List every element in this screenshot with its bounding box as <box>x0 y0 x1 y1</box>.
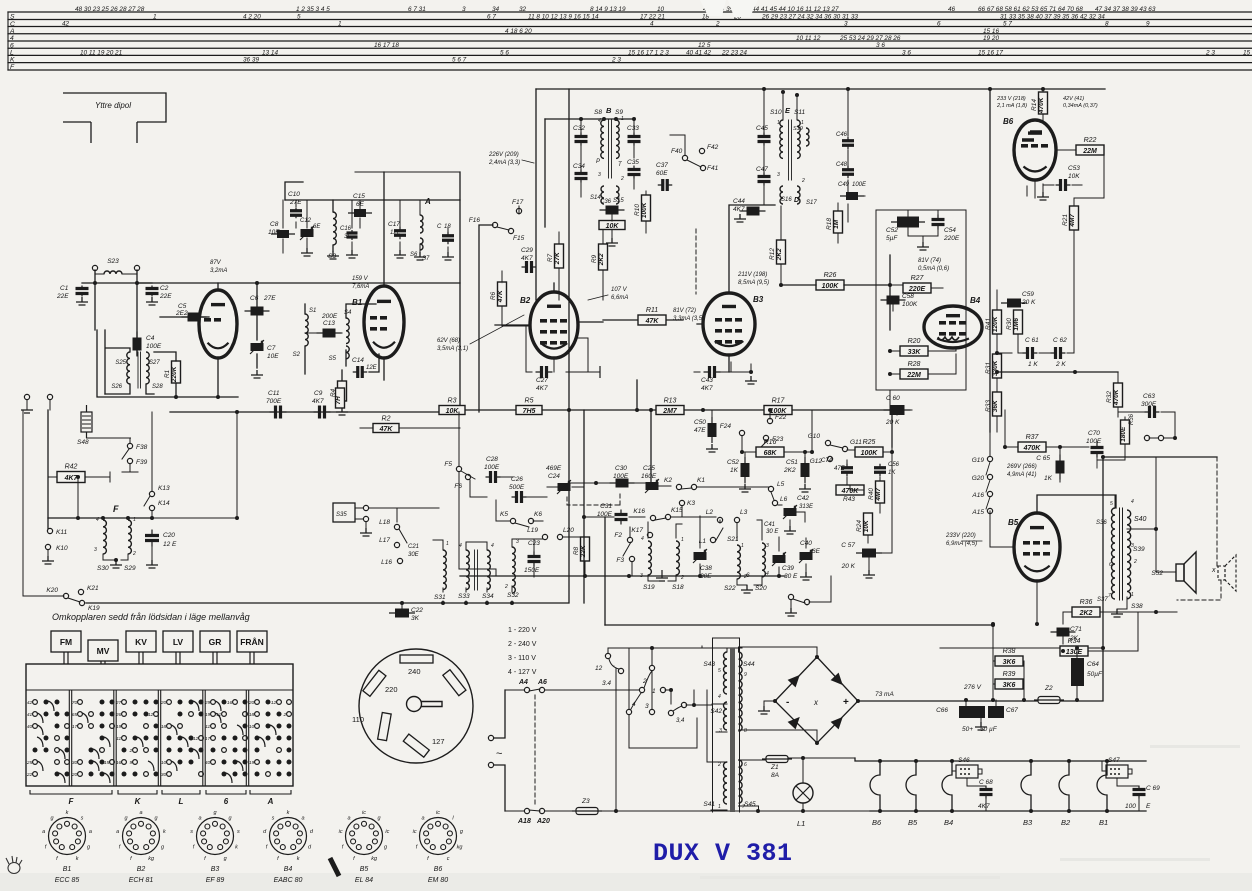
junction <box>627 574 631 578</box>
capacitor C29 <box>522 261 537 273</box>
wire B3 anode <box>729 205 775 293</box>
capacitor C34 <box>575 170 588 183</box>
matrix link <box>37 725 43 735</box>
svg-text:kg: kg <box>371 856 378 862</box>
svg-text:130E: 130E <box>1066 649 1083 656</box>
svg-text:B: B <box>606 106 612 115</box>
svg-text:1 2 35 3 4 5: 1 2 35 3 4 5 <box>296 6 330 13</box>
matrix link <box>93 749 99 759</box>
button stem MV <box>101 661 105 664</box>
matrix contact <box>44 736 49 741</box>
contact L1 <box>710 537 715 542</box>
junction heater B5 bottom <box>914 809 918 813</box>
terminal antenna 2 <box>134 265 139 270</box>
capacitor C59 <box>1001 299 1027 308</box>
wire F5 down to K5 <box>459 472 496 576</box>
svg-text:9: 9 <box>130 760 133 766</box>
contact jack a <box>1144 435 1149 440</box>
junction <box>1041 87 1045 91</box>
wire A6 to selector <box>545 689 639 691</box>
svg-text:1: 1 <box>681 537 684 543</box>
wire main bus y410 <box>440 409 892 411</box>
wire S6 S7 <box>419 200 421 252</box>
junction heater B3 bottom <box>1029 809 1033 813</box>
junction <box>995 370 999 374</box>
junction R16 left <box>740 450 744 454</box>
junction <box>101 516 105 520</box>
wire x1156 <box>1155 457 1157 529</box>
wire C53 leads <box>1043 184 1082 186</box>
svg-text:B1: B1 <box>63 866 72 873</box>
svg-text:22: 22 <box>26 772 33 778</box>
svg-text:R12: R12 <box>769 248 776 260</box>
transformer bobbin outline <box>713 638 740 812</box>
capacitor C38 trimmer <box>693 549 707 563</box>
ground C16 <box>346 250 358 258</box>
junction <box>135 281 139 285</box>
svg-text:8: 8 <box>1105 21 1109 28</box>
svg-text:C11: C11 <box>268 390 280 397</box>
svg-text:100K: 100K <box>902 301 918 308</box>
junction sel 1 <box>669 688 673 692</box>
resistor R14 <box>1031 92 1048 114</box>
svg-text:470K: 470K <box>1023 445 1042 452</box>
matrix contact open <box>110 760 115 765</box>
core S8 S9 <box>609 120 612 178</box>
matrix link <box>215 713 221 723</box>
svg-text:C 60: C 60 <box>886 395 900 402</box>
winding S43 <box>724 652 728 694</box>
selector key <box>407 697 443 712</box>
matrix contact <box>189 700 194 705</box>
svg-text:C: C <box>437 224 442 230</box>
svg-text:7,6mA: 7,6mA <box>352 284 369 290</box>
matrix link <box>182 737 188 747</box>
svg-text:3: 3 <box>598 172 601 178</box>
svg-text:C31: C31 <box>600 503 612 510</box>
junction <box>1061 649 1065 653</box>
matrix contact open <box>122 760 127 765</box>
svg-text:2: 2 <box>801 178 805 184</box>
coil S31 <box>443 550 446 590</box>
contact F40 <box>682 155 687 160</box>
svg-text:20 K: 20 K <box>1021 299 1036 306</box>
svg-text:3: 3 <box>516 539 519 545</box>
svg-text:G19: G19 <box>972 457 985 464</box>
matrix link <box>82 713 88 723</box>
junction <box>632 117 636 121</box>
svg-text:C10: C10 <box>288 191 300 198</box>
coil S15 <box>616 186 619 204</box>
svg-text:B6: B6 <box>1003 117 1014 126</box>
svg-text:120K: 120K <box>992 315 999 332</box>
capacitor C13 <box>317 329 342 338</box>
selector wires right <box>673 690 712 711</box>
svg-text:S30: S30 <box>97 565 109 572</box>
wire bridge minus <box>764 701 775 706</box>
svg-text:C46: C46 <box>836 132 848 138</box>
tube socket B1 ECC 85 <box>49 818 86 855</box>
contact L19 <box>542 534 547 539</box>
transformer core S25-S27 <box>138 352 141 388</box>
matrix contact open <box>178 724 183 729</box>
svg-text:C33: C33 <box>627 125 639 132</box>
junction <box>964 698 968 702</box>
heater B5 <box>906 761 916 811</box>
junction heater B1 top <box>1105 759 1109 763</box>
matrix contact <box>55 724 60 729</box>
matrix link <box>193 749 199 759</box>
svg-text:C44: C44 <box>733 198 745 205</box>
svg-text:S22: S22 <box>724 585 736 592</box>
matrix contact <box>277 724 282 729</box>
junction <box>635 408 639 412</box>
junction heater B3 top <box>1029 759 1033 763</box>
heater B6 <box>870 761 880 811</box>
matrix contact <box>154 748 159 753</box>
matrix contact open <box>222 724 227 729</box>
svg-text:3.4: 3.4 <box>602 680 611 687</box>
wire C69 down <box>1139 761 1146 811</box>
svg-text:22E: 22E <box>159 293 172 300</box>
matrix contact <box>277 760 282 765</box>
wires B3 pins <box>697 324 729 372</box>
contact G10 <box>825 440 830 445</box>
capacitor C67 <box>988 706 1004 718</box>
coil tops <box>443 539 512 550</box>
capacitor C6 <box>245 307 270 316</box>
junction C30 <box>594 481 598 485</box>
matrix contact <box>178 712 183 717</box>
svg-text:C37: C37 <box>656 162 668 169</box>
junction <box>464 601 468 605</box>
capacitor C4 <box>133 332 142 357</box>
wire bottom rail <box>505 810 870 811</box>
wire S35 right <box>369 507 439 509</box>
wire vertical x990 <box>989 89 991 432</box>
svg-text:4: 4 <box>718 694 721 700</box>
svg-text:R28: R28 <box>908 361 921 368</box>
wire C36 10K <box>611 215 613 238</box>
svg-text:68K: 68K <box>764 450 778 457</box>
winding S36 S37 primary <box>1112 508 1116 599</box>
svg-text:B4: B4 <box>944 818 953 827</box>
svg-text:F42: F42 <box>707 144 719 151</box>
junction <box>801 756 805 760</box>
wire S1 leads <box>304 304 306 374</box>
resistor R34 <box>1060 638 1088 656</box>
svg-text:4M7: 4M7 <box>875 488 882 502</box>
svg-text:K13: K13 <box>158 485 170 492</box>
selector slot 240 <box>400 655 433 663</box>
terminal G19 <box>987 456 992 461</box>
svg-text:ic: ic <box>413 829 417 835</box>
junction <box>991 698 995 702</box>
matrix contact <box>222 772 227 777</box>
coil S11 <box>797 120 800 158</box>
svg-text:S42: S42 <box>710 708 722 715</box>
svg-text:10K: 10K <box>446 408 460 415</box>
resistor R12 <box>769 240 786 264</box>
svg-text:x: x <box>1211 567 1216 574</box>
terminal S35 a <box>363 505 368 510</box>
svg-text:S9: S9 <box>615 109 623 116</box>
coil top links <box>433 539 534 542</box>
contact K16 <box>650 515 655 520</box>
resistor R3 <box>439 398 465 415</box>
wire x78 down <box>77 477 79 518</box>
svg-text:30: 30 <box>72 760 78 766</box>
svg-text:2K2: 2K2 <box>776 248 783 261</box>
capacitor C18 <box>0 0 1 1</box>
svg-text:3: 3 <box>844 21 848 28</box>
contact L17 <box>394 542 399 547</box>
svg-text:10K: 10K <box>606 223 620 230</box>
junction heater B5 top <box>914 759 918 763</box>
matrix contact <box>55 700 60 705</box>
junction heater B4 bottom <box>950 809 954 813</box>
dashed wire ext speaker <box>1216 457 1218 566</box>
ground G <box>785 608 797 616</box>
svg-text:3,4: 3,4 <box>676 718 685 724</box>
matrix link <box>171 761 177 771</box>
svg-text:1: 1 <box>133 517 136 523</box>
svg-text:K5: K5 <box>500 511 508 518</box>
svg-text:S23: S23 <box>107 258 119 265</box>
wires IF1 <box>581 119 634 197</box>
matrix contact <box>154 724 159 729</box>
tube B6 <box>1014 120 1056 180</box>
svg-text:K10: K10 <box>56 545 68 552</box>
wire R7 <box>558 232 560 300</box>
svg-text:EABC 80: EABC 80 <box>274 877 303 884</box>
svg-text:6E: 6E <box>313 224 321 230</box>
svg-text:a: a <box>42 829 45 835</box>
svg-text:6: 6 <box>10 42 14 49</box>
bracket A <box>250 790 291 794</box>
matrix contact <box>199 748 204 753</box>
wire R42 <box>48 472 110 482</box>
svg-text:B1: B1 <box>352 298 363 307</box>
matrix link <box>226 773 232 783</box>
wire AVC bus y603 <box>86 602 568 604</box>
wire R8 down <box>584 537 586 576</box>
svg-text:3K6: 3K6 <box>1003 659 1016 666</box>
capacitor C69 <box>1133 786 1146 799</box>
ground C40 <box>800 572 812 580</box>
svg-text:1M: 1M <box>833 219 840 229</box>
capacitor C47 <box>758 173 771 186</box>
hand icon <box>6 856 22 874</box>
matrix link <box>48 701 54 711</box>
svg-text:+: + <box>843 697 849 708</box>
matrix contact open <box>211 736 216 741</box>
matrix contact open <box>122 724 127 729</box>
wires F2 F3 <box>623 527 632 576</box>
matrix contact <box>255 736 260 741</box>
capacitor C7 trimmer <box>250 340 264 354</box>
svg-text:2: 2 <box>129 748 133 754</box>
matrix contact open <box>55 748 60 753</box>
svg-text:100E: 100E <box>484 464 500 471</box>
top band line 1 <box>8 11 1252 13</box>
resistor R20 <box>900 338 928 356</box>
svg-text:L16: L16 <box>381 559 392 566</box>
svg-text:C21: C21 <box>408 544 419 550</box>
fuse Z1 <box>762 756 792 763</box>
wires C66 C67 <box>966 700 996 722</box>
svg-text:41: 41 <box>27 712 33 718</box>
svg-text:R2: R2 <box>382 416 391 423</box>
svg-text:s: s <box>190 829 193 835</box>
capacitor C32 <box>575 133 588 146</box>
button stem GR <box>213 652 217 664</box>
wire contact 2-3 <box>651 671 653 709</box>
svg-text:F39: F39 <box>136 459 148 466</box>
svg-text:FM: FM <box>60 637 72 647</box>
svg-text:R39: R39 <box>1003 671 1016 678</box>
selector slot 110 <box>378 713 392 741</box>
wires S45 <box>739 760 767 811</box>
svg-text:1: 1 <box>652 688 656 695</box>
capacitor C25 trimmer <box>645 479 659 493</box>
OPT bottom pin <box>1117 597 1127 609</box>
junction R16 right <box>810 450 814 454</box>
stub <box>604 689 606 691</box>
svg-text:100E: 100E <box>146 343 162 350</box>
svg-text:S20: S20 <box>755 585 767 592</box>
svg-text:22E: 22E <box>56 293 69 300</box>
capacitor C9 <box>314 406 331 419</box>
matrix contact <box>287 724 292 729</box>
contact L3 <box>734 517 739 522</box>
contact F39 <box>127 458 132 463</box>
top band line 6 <box>8 47 1252 49</box>
svg-text:K17: K17 <box>631 527 643 534</box>
matrix contact <box>44 748 49 753</box>
capacitor C27 <box>536 366 553 378</box>
svg-text:4K7: 4K7 <box>701 385 713 392</box>
svg-text:2K2: 2K2 <box>783 467 796 474</box>
svg-text:127: 127 <box>432 737 445 746</box>
ground C52 <box>917 242 929 250</box>
svg-text:4: 4 <box>491 543 494 549</box>
svg-text:31 33 35 38 40 37 39 35 36 42: 31 33 35 38 40 37 39 35 36 42 32 34 <box>1000 14 1105 21</box>
svg-text:11: 11 <box>116 736 121 742</box>
matrix link <box>148 761 154 771</box>
svg-text:10K: 10K <box>863 519 870 532</box>
matrix contact open <box>78 712 83 717</box>
svg-text:kg: kg <box>148 856 155 862</box>
junction <box>582 515 586 519</box>
matrix contact open <box>222 712 227 717</box>
svg-text:C 69: C 69 <box>1146 785 1160 792</box>
svg-text:220K: 220K <box>171 365 178 383</box>
wire C52 C54 gnd <box>908 228 938 242</box>
top band line 2 <box>8 19 1252 21</box>
junction <box>701 408 705 412</box>
winding S41 <box>724 762 728 804</box>
svg-text:20: 20 <box>160 700 167 706</box>
selector slot 220 <box>363 670 386 696</box>
coil S22 S20 bottoms <box>737 577 762 585</box>
junction cathode <box>216 395 220 399</box>
OPT tap 3 <box>1127 528 1156 530</box>
bracket L <box>162 790 200 794</box>
svg-text:27K: 27K <box>554 251 561 265</box>
matrix link <box>237 725 243 735</box>
matrix contact <box>178 760 183 765</box>
resistor R? <box>335 388 345 408</box>
contact K3 <box>679 500 684 505</box>
wire S48 to F38 <box>87 437 131 439</box>
matrix contact open <box>65 724 70 729</box>
svg-text:A6: A6 <box>537 679 547 686</box>
svg-text:3: 3 <box>719 728 722 734</box>
wire B1a cathode <box>217 358 219 397</box>
wires S47 <box>1102 761 1139 786</box>
matrix divider <box>114 690 116 786</box>
switch blade F38 <box>122 449 129 459</box>
rectifier bridge <box>775 657 858 743</box>
wires C15 C16 <box>352 200 360 250</box>
svg-text:47K: 47K <box>645 318 660 325</box>
capacitor C42 trimmer <box>783 505 797 519</box>
matrix contact open <box>222 748 227 753</box>
wire S4 S5 leads <box>346 304 376 366</box>
svg-text:17: 17 <box>205 736 211 742</box>
wires R41 R31 R33 <box>996 290 998 432</box>
svg-text:S41: S41 <box>703 801 715 808</box>
contact K21 <box>78 589 83 594</box>
paper notch <box>700 0 726 16</box>
wire B+ vertical x1103 <box>1102 457 1104 700</box>
matrix contact <box>189 748 194 753</box>
matrix contact <box>277 712 282 717</box>
capacitor C68 <box>980 786 993 799</box>
svg-text:313E: 313E <box>799 504 814 510</box>
ground C12 <box>301 248 313 256</box>
junction C22 <box>400 601 404 605</box>
svg-text:25 53 24 29 27 28 26: 25 53 24 29 27 28 26 <box>839 35 901 42</box>
contact K13 <box>149 491 154 496</box>
svg-text:R30: R30 <box>1006 318 1013 330</box>
svg-text:S38: S38 <box>1131 603 1143 610</box>
svg-text:ic: ic <box>385 829 389 835</box>
wires R20 R28 <box>890 348 956 374</box>
svg-text:R22: R22 <box>1084 137 1097 144</box>
svg-text:C20: C20 <box>163 532 175 539</box>
capacitor C30 <box>610 479 635 488</box>
junction <box>174 395 178 399</box>
svg-text:2 - 240 V: 2 - 240 V <box>508 641 537 648</box>
svg-text:12: 12 <box>595 665 603 672</box>
matrix contact <box>65 736 70 741</box>
wire B1a anode up <box>217 283 219 290</box>
contact F6 <box>465 474 470 479</box>
contact F2 <box>627 537 632 542</box>
svg-text:220E: 220E <box>943 235 960 242</box>
svg-text:18: 18 <box>161 724 167 730</box>
svg-text:25: 25 <box>26 760 33 766</box>
matrix contact <box>178 700 183 705</box>
contact F3 <box>629 556 634 561</box>
svg-text:100: 100 <box>1125 803 1136 810</box>
matrix contact open <box>167 700 172 705</box>
svg-text:2 3: 2 3 <box>611 57 621 64</box>
svg-text:C 61: C 61 <box>1025 337 1039 344</box>
svg-text:K2: K2 <box>664 477 672 484</box>
